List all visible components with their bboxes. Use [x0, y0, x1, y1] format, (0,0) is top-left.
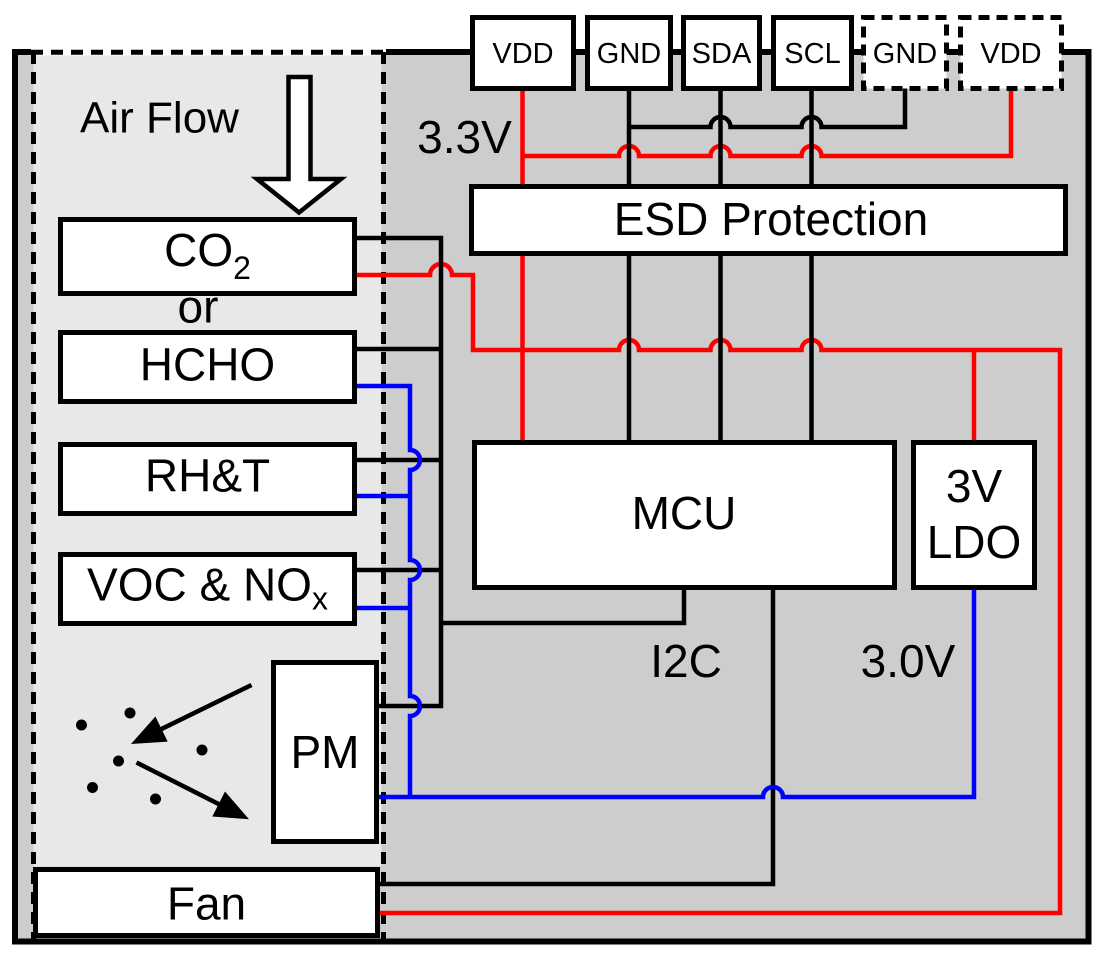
wire red 3.3V rail upper with hops [523, 88, 1012, 156]
particle dot 1 [76, 720, 87, 731]
wire red ESD to MCU [520, 254, 525, 443]
Fan box [36, 870, 378, 936]
3V LDO box [914, 443, 1035, 588]
wire blue VOC stub [357, 606, 410, 611]
svg-text:3.0V: 3.0V [861, 635, 956, 687]
svg-text:3V: 3V [946, 460, 1003, 512]
svg-text:PM: PM [291, 726, 360, 778]
wire black VOC stub [357, 568, 441, 573]
svg-text:Air Flow: Air Flow [80, 94, 239, 143]
air flow chamber (light region) [34, 52, 382, 867]
MCU box [475, 443, 895, 588]
wire black I2C from MCU to bus [441, 590, 684, 623]
svg-text:RH&T: RH&T [145, 450, 270, 502]
VOC & NOx sensor box [61, 555, 355, 624]
wire black GND pin drop [627, 88, 632, 443]
HCHO sensor box [61, 333, 355, 402]
pin box SDA [684, 18, 760, 89]
wire black HCHO stub [357, 347, 441, 352]
PM sensor box [274, 663, 377, 842]
svg-text:VOC & NOx: VOC & NOx [87, 559, 328, 617]
particle dot 4 [113, 756, 124, 767]
particle dot 3 [197, 745, 208, 756]
pin box GND [588, 18, 671, 89]
svg-text:MCU: MCU [632, 487, 737, 539]
particle dot 6 [150, 794, 161, 805]
svg-text:VDD: VDD [492, 38, 553, 70]
pin box GND dashed [864, 18, 947, 89]
white strip behind top dashed edge [31, 49, 386, 56]
svg-text:GND: GND [597, 38, 661, 70]
particle dot 5 [87, 782, 98, 793]
air flow chamber dashed border left [31, 52, 36, 941]
wire black CO2 signal bus down to PM [357, 238, 441, 706]
particle dot 2 [125, 708, 136, 719]
air out arrow to PM [137, 763, 250, 820]
svg-text:LDO: LDO [927, 516, 1022, 568]
pin box SCL [774, 18, 852, 89]
wire red rail to 3V LDO [972, 350, 977, 443]
wire black SCL pin drop [809, 88, 814, 443]
wire blue 3.0V rail PM to LDO with hop [379, 590, 974, 797]
CO2 sensor box [61, 220, 355, 294]
svg-text:I2C: I2C [650, 635, 722, 687]
svg-text:Fan: Fan [167, 878, 246, 930]
svg-text:SDA: SDA [692, 38, 752, 70]
wire red CO2 to 3.3V rail lower, right side down to Fan [357, 264, 1060, 913]
wire blue RH&T stub [357, 494, 410, 499]
air flow chamber dashed border top [31, 50, 386, 55]
wire red VDD pin drop to ESD [520, 88, 525, 184]
svg-text:HCHO: HCHO [140, 339, 275, 391]
svg-text:SCL: SCL [784, 38, 840, 70]
RH&T sensor box [61, 445, 355, 514]
pin box VDD [473, 18, 574, 89]
air flow chamber dashed border right [381, 52, 386, 941]
svg-text:or: or [178, 281, 219, 333]
wire blue HCHO and 3.0V bus with hops [357, 386, 420, 797]
svg-text:VDD: VDD [980, 38, 1041, 70]
wire black MCU to Fan [380, 590, 773, 884]
pin box VDD dashed [961, 18, 1062, 89]
wire black GND link to dashed GND with hops [629, 88, 905, 127]
ESD Protection box [472, 187, 1066, 254]
wire black RH&T stub [357, 458, 441, 463]
wire black SDA pin drop [718, 88, 723, 443]
svg-text:ESD Protection: ESD Protection [614, 193, 928, 245]
svg-text:GND: GND [873, 38, 937, 70]
air intake arrow into dots [131, 685, 252, 744]
air flow down arrow [257, 77, 341, 213]
svg-text:3.3V: 3.3V [417, 111, 512, 163]
